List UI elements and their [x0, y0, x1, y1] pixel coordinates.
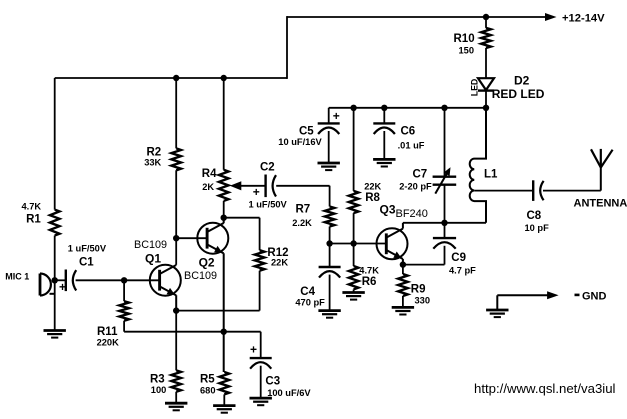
wire mic dot to C1 — [55, 279, 66, 281]
wire C3 drop — [260, 332, 262, 358]
svg-text:LED: LED — [469, 79, 479, 97]
junction dot R4-Q2-R12 — [221, 215, 227, 221]
svg-text:C3: C3 — [265, 376, 280, 388]
svg-text:C2: C2 — [260, 162, 275, 174]
ground below R5 — [213, 406, 235, 413]
svg-text:+: + — [253, 185, 260, 199]
junction dot Q1 emitter — [173, 307, 179, 313]
svg-text:R6: R6 — [362, 276, 377, 288]
transistor Q2 — [197, 223, 228, 254]
wire Q2 base — [176, 237, 207, 239]
junction dot emitter-R5 node — [221, 329, 227, 335]
svg-text:C1: C1 — [79, 257, 94, 269]
wire R11 bottom feedback y=332 — [124, 331, 261, 333]
svg-text:R1: R1 — [26, 214, 41, 226]
svg-text:220K: 220K — [97, 338, 120, 348]
transistor Q3 — [377, 228, 408, 259]
svg-text:R9: R9 — [411, 284, 426, 296]
svg-text:10 pF: 10 pF — [525, 223, 550, 233]
svg-text:Q2: Q2 — [199, 256, 215, 270]
wire left rail vertical top (R1 column upper) — [54, 78, 56, 210]
junction dot Q2 base tap — [173, 235, 179, 241]
capacitor C6 — [373, 108, 395, 160]
resistor R10 — [481, 17, 491, 78]
svg-text:ANTENNA: ANTENNA — [574, 198, 627, 210]
svg-text:MIC 1: MIC 1 — [5, 271, 29, 281]
ground below C4 — [318, 311, 340, 318]
svg-text:+: + — [250, 343, 257, 357]
microphone MIC1 — [40, 274, 55, 296]
svg-text:1 uF/50V: 1 uF/50V — [68, 244, 107, 254]
junction dot L1-bus — [483, 105, 489, 111]
svg-text:R3: R3 — [150, 374, 165, 386]
svg-text:+12-14V: +12-14V — [562, 12, 605, 24]
svg-text:4.7 pF: 4.7 pF — [449, 266, 476, 276]
wire L1 tap to C8 — [474, 190, 533, 192]
resistor R6 — [349, 244, 359, 293]
antenna symbol — [591, 149, 613, 191]
wire Q3 base from R7/R8 node — [330, 243, 387, 245]
wire Q3 emitter down — [402, 259, 404, 265]
junction dot mic node — [52, 277, 58, 283]
svg-text:4.7K: 4.7K — [359, 266, 379, 276]
svg-text:BF240: BF240 — [396, 208, 428, 220]
ground below C5 — [318, 163, 340, 170]
capacitor C2 — [266, 175, 276, 198]
wire R4-Q2collector-R12 y=218 — [224, 217, 260, 219]
svg-text:1 uF/50V: 1 uF/50V — [249, 200, 288, 210]
capacitor C5 — [318, 108, 340, 163]
svg-text:Q3: Q3 — [380, 203, 396, 217]
svg-text:2.2K: 2.2K — [292, 218, 312, 228]
wire Q1emitter to R12 bottom y=311 — [176, 310, 259, 312]
svg-text:100: 100 — [151, 385, 167, 395]
junction dot Q3 emitter — [400, 261, 406, 267]
svg-text:330: 330 — [415, 296, 431, 306]
ground below R6 — [342, 293, 364, 300]
svg-text:BC109: BC109 — [184, 270, 217, 282]
ground below C6 — [373, 159, 395, 166]
junction dot R8-bus — [350, 105, 356, 111]
svg-text:+: + — [59, 280, 66, 294]
svg-text:C8: C8 — [527, 210, 542, 222]
svg-text:4.7K: 4.7K — [22, 202, 42, 212]
ground below R9 — [392, 307, 414, 314]
resistor R4 pot — [219, 78, 229, 218]
svg-text:33K: 33K — [144, 158, 161, 168]
svg-text:RED LED: RED LED — [492, 87, 545, 101]
wire R3 column — [175, 311, 177, 371]
svg-text:C5: C5 — [299, 126, 314, 138]
wire top bus to +12-14V — [287, 16, 547, 18]
resistor R9 — [398, 265, 408, 308]
svg-text:.01 uF: .01 uF — [398, 141, 425, 151]
svg-text:Q1: Q1 — [145, 252, 161, 266]
svg-text:22K: 22K — [271, 258, 288, 268]
svg-text:22K: 22K — [364, 182, 381, 192]
wire C8 to antenna — [543, 190, 601, 192]
svg-text:2K: 2K — [202, 182, 214, 192]
wire arrow to C2 — [233, 185, 266, 187]
wire Q2 collector up — [223, 218, 225, 224]
wire riser x=287 — [286, 16, 288, 79]
junction dot C6-bus — [381, 105, 387, 111]
resistor R3 — [171, 370, 181, 403]
label GND — [575, 291, 607, 303]
resistor R2 — [171, 78, 181, 265]
wire mic to ground — [54, 280, 56, 330]
svg-text:BC109: BC109 — [134, 239, 167, 251]
svg-text:100 uF/6V: 100 uF/6V — [267, 388, 311, 398]
resistor R7 — [325, 186, 335, 244]
junction dot R11 top — [121, 277, 127, 283]
wire C1 to R11/Q1 — [76, 279, 160, 281]
svg-text:GND: GND — [582, 291, 607, 303]
svg-text:C6: C6 — [401, 126, 416, 138]
wire C9 bottom to Q3 emitter — [403, 264, 445, 266]
wire Q1 emitter down — [175, 295, 177, 310]
junction dot R8-R6 node — [350, 240, 356, 246]
resistor R12 — [255, 218, 265, 311]
svg-text:http://www.qsl.net/va3iul: http://www.qsl.net/va3iul — [474, 381, 616, 396]
diode D2 red LED — [478, 78, 494, 108]
arrow to R4 wiper — [230, 181, 242, 190]
svg-text:R10: R10 — [454, 33, 475, 45]
node junction dot V+ at R10 — [483, 14, 489, 20]
inductor L1 — [470, 108, 486, 223]
resistor R8 — [349, 108, 359, 244]
junction dot C7-C9-collector — [441, 220, 447, 226]
svg-text:470 pF: 470 pF — [295, 298, 325, 308]
svg-text:C4: C4 — [300, 286, 315, 298]
svg-text:L1: L1 — [484, 169, 498, 181]
junction dot C7-bus — [441, 105, 447, 111]
ground below R3 — [165, 403, 187, 410]
svg-text:R11: R11 — [97, 326, 118, 338]
arrow supply — [545, 13, 557, 21]
capacitor C8 — [533, 180, 543, 201]
wire Q3 collector up — [402, 223, 404, 229]
resistor R1 — [50, 210, 60, 281]
junction dot R2 top — [173, 75, 179, 81]
svg-text:D2: D2 — [514, 74, 530, 88]
capacitor C3 — [250, 358, 272, 398]
svg-text:C7: C7 — [413, 169, 428, 181]
ground reference symbol — [486, 291, 558, 317]
wire mid bus y=108 — [329, 107, 486, 109]
capacitor C1 — [66, 270, 76, 292]
resistor R11 — [119, 280, 129, 331]
junction dot R4 top — [221, 75, 227, 81]
svg-text:680: 680 — [200, 386, 216, 396]
svg-text:C9: C9 — [451, 252, 466, 264]
svg-text:R4: R4 — [202, 168, 217, 180]
wire Q2 emitter down — [223, 253, 225, 372]
svg-text:R7: R7 — [296, 204, 311, 216]
resistor R5 — [220, 372, 230, 406]
junction dot R7 bottom — [326, 240, 332, 246]
capacitor C9 — [433, 223, 456, 265]
ground below C3 — [250, 398, 272, 405]
svg-text:2-20 pF: 2-20 pF — [399, 182, 432, 192]
trimmer capacitor C7 — [433, 108, 457, 223]
wire Q3 collector to L1 bottom y=223 — [403, 222, 486, 224]
ground below mic — [44, 331, 66, 338]
wire C2 to R7 top — [276, 186, 329, 187]
svg-text:R5: R5 — [200, 374, 215, 386]
svg-text:R8: R8 — [365, 192, 380, 204]
svg-text:10 uF/16V: 10 uF/16V — [278, 137, 322, 147]
capacitor C4 — [319, 244, 341, 311]
wire top bus left section y=78 — [55, 77, 287, 79]
transistor Q1 — [150, 265, 181, 296]
svg-text:+: + — [333, 109, 340, 123]
svg-text:150: 150 — [459, 46, 475, 56]
